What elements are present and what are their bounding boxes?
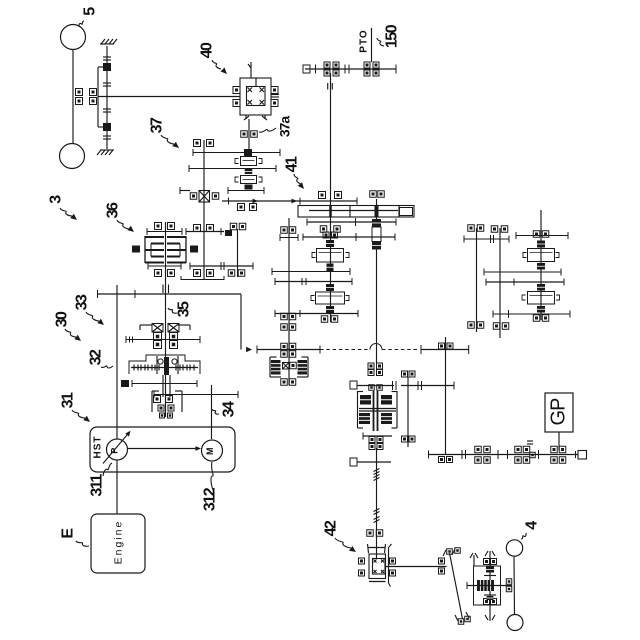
- HST housing: [90, 427, 235, 472]
- sun shaft 32: [163, 357, 170, 397]
- HST pump P: [103, 431, 131, 464]
- shaft 35: [165, 222, 167, 417]
- brake 34 bearings: [154, 396, 175, 419]
- planetary 33 gears: [152, 324, 179, 349]
- output line bearings b: [475, 446, 491, 463]
- pto clutch input cap: [350, 381, 396, 390]
- shaft 3 mid bearings: [281, 313, 296, 320]
- svg-text:30: 30: [54, 311, 71, 327]
- output line ticks: [462, 450, 466, 459]
- shaft 3 bearings row2: [281, 324, 296, 331]
- label 4: [521, 521, 541, 539]
- right shaft A bearings: [468, 225, 484, 329]
- shaft 41a top bearings: [319, 192, 342, 199]
- differential hubs: [103, 63, 111, 131]
- pto shaft top bearings: [370, 191, 385, 198]
- pto counter bearings top: [533, 231, 549, 238]
- svg-text:41: 41: [284, 156, 301, 172]
- svg-text:HST: HST: [93, 436, 104, 459]
- right shaft B bearings: [491, 226, 509, 330]
- bevel box 40 bearings: [233, 87, 279, 107]
- PTO label: [359, 29, 370, 52]
- rear axle shaft: [97, 39, 117, 155]
- label 32: [88, 349, 114, 368]
- speed bar 41: [298, 206, 414, 218]
- right mesh line 282: [486, 279, 564, 286]
- shaft 37a bearings: [241, 131, 258, 138]
- right shaft A: [476, 228, 478, 332]
- clutch 36 side hubs: [132, 246, 198, 253]
- synchro 37 gears: [235, 157, 262, 190]
- shaft 3 vertical: [288, 218, 290, 385]
- engine label: [113, 520, 125, 565]
- shaft 35 spline: [163, 285, 169, 294]
- svg-text:5: 5: [82, 7, 99, 16]
- gear mesh line 37 middle: [189, 165, 276, 172]
- rear axle line: [72, 50, 74, 144]
- svg-text:M: M: [205, 448, 215, 455]
- pto lower cap gear: [350, 458, 391, 466]
- bevel 42 flare: [368, 544, 386, 553]
- output line bearings e: [551, 446, 566, 463]
- steering shaft diagonal: [443, 548, 470, 625]
- pto clutch housing: [358, 391, 398, 431]
- label 30: [54, 311, 82, 341]
- shaft 41a bottom bearings: [321, 316, 338, 323]
- pto counter stack: [523, 241, 559, 270]
- clutch 36 comb: [145, 236, 186, 263]
- mesh line 313: [275, 310, 358, 317]
- front axle gear frame: [470, 553, 501, 605]
- svg-text:312: 312: [202, 487, 219, 511]
- svg-text:31: 31: [60, 392, 77, 408]
- shaft 37a: [248, 119, 250, 152]
- gear line right of pto clutch: [401, 381, 454, 390]
- svg-text:PTO: PTO: [359, 29, 370, 52]
- svg-text:40: 40: [199, 42, 216, 58]
- PTO line end cap: [303, 65, 316, 74]
- gear line 41a: [303, 233, 395, 241]
- travel line: [257, 344, 469, 355]
- counter shaft 37: [203, 140, 205, 280]
- shaft 3 top bearings: [281, 227, 296, 234]
- svg-text:35: 35: [176, 301, 193, 317]
- gear line 36 bottom: [148, 262, 253, 270]
- fr clutch bearings top: [281, 343, 296, 357]
- front drive line: [386, 566, 447, 568]
- label 42: [323, 520, 357, 552]
- svg-text:37: 37: [149, 117, 166, 133]
- gear line 37 lower: [180, 187, 264, 194]
- right mesh line 314: [493, 310, 570, 318]
- pto counter shaft: [540, 210, 542, 320]
- label 37a: [259, 116, 293, 138]
- brake hub: [121, 380, 129, 387]
- svg-text:311: 311: [89, 474, 106, 497]
- gear line 32: [132, 380, 197, 387]
- front axle bearings: [484, 559, 497, 605]
- label 37: [149, 117, 180, 148]
- pto counter line top: [516, 232, 568, 239]
- output end cap: [576, 451, 587, 460]
- engine box: [91, 514, 145, 573]
- gear line 36 top: [147, 228, 224, 235]
- brake 34 frame: [152, 391, 182, 412]
- right shaft down: [445, 337, 447, 455]
- shaft 34: [211, 385, 213, 439]
- label 5: [79, 7, 99, 27]
- shaft 41a bearings row2: [320, 226, 340, 233]
- fr clutch bearings bottom: [281, 379, 296, 386]
- svg-text:42: 42: [323, 520, 340, 536]
- front lower gears: [484, 595, 496, 600]
- gear line under pto clutch: [363, 433, 392, 440]
- svg-text:4: 4: [524, 521, 541, 530]
- mesh line 271: [272, 268, 350, 275]
- PTO top bearings right: [364, 62, 379, 76]
- power line 37 to 41: [222, 198, 357, 205]
- right shaft B: [499, 228, 501, 338]
- svg-text:150: 150: [384, 24, 401, 48]
- wheel 5 upper: [61, 25, 86, 50]
- pto lower shaft: [374, 448, 380, 558]
- label 35: [168, 301, 193, 317]
- GP box: [545, 393, 573, 432]
- right mesh line 272: [484, 269, 561, 276]
- bevel 42 bearings: [359, 558, 396, 576]
- pto clutch right bearings: [402, 371, 416, 377]
- PTO line top: [305, 65, 396, 74]
- gear line shaft3 top: [280, 234, 298, 241]
- pto clutch housing right wall: [407, 377, 409, 447]
- svg-text:3: 3: [48, 195, 65, 204]
- power collect line: [98, 290, 242, 350]
- svg-text:34: 34: [221, 401, 238, 417]
- label E: [60, 528, 90, 547]
- GP label: [548, 398, 570, 426]
- gear line under bar: [307, 218, 396, 226]
- PTO top bearings left: [324, 62, 339, 76]
- label 34: [212, 401, 238, 417]
- shaft 237 top: [225, 223, 246, 277]
- pto lower bearings: [367, 530, 383, 537]
- right gear line top: [464, 235, 509, 243]
- HST label: [93, 436, 104, 459]
- shaft 41a bearings row3: [323, 232, 338, 238]
- pto clutch top bearings: [368, 363, 383, 376]
- shaft 37 mid bearings: [194, 225, 214, 232]
- front drive bearings: [439, 558, 445, 574]
- shift link 36: [181, 276, 224, 280]
- gear stack 41a lower: [311, 284, 349, 313]
- clutch 36 top bearings: [155, 223, 175, 230]
- label 36: [105, 202, 135, 232]
- svg-text:37a: 37a: [277, 116, 293, 138]
- pto clutch bottom bearings: [369, 436, 415, 450]
- gear mesh line 37 upper: [193, 149, 280, 156]
- svg-text:33: 33: [74, 294, 91, 310]
- PTO stub shaft: [371, 28, 373, 62]
- gp output line: [428, 451, 578, 459]
- label 41: [284, 156, 305, 189]
- svg-text:E: E: [60, 528, 77, 539]
- clutch 36 bottom bearings: [155, 270, 214, 277]
- differential bearings: [76, 89, 97, 105]
- input shaft from engine: [116, 285, 118, 439]
- label 312: [202, 462, 219, 511]
- label 311: [89, 463, 113, 497]
- mesh line 281: [275, 278, 352, 285]
- output line bearings a: [439, 457, 453, 463]
- engine shaft: [116, 461, 118, 515]
- label 150: [377, 24, 401, 48]
- front axle shaft: [485, 551, 495, 621]
- svg-text:36: 36: [105, 202, 122, 218]
- front wheel axle: [506, 556, 514, 615]
- bevel gear box 40: [240, 62, 271, 120]
- label 33: [74, 294, 105, 325]
- front final drive: [467, 580, 512, 591]
- front axle spline: [484, 567, 496, 576]
- gear line 33: [126, 336, 200, 343]
- pto counter stack lower: [522, 284, 560, 313]
- GP link line: [558, 432, 560, 450]
- gear stack 41a: [312, 240, 349, 271]
- shaft 37 lower bearings: [238, 204, 257, 211]
- wheel 5 lower: [60, 144, 85, 169]
- svg-text:32: 32: [88, 349, 105, 365]
- svg-text:Engine: Engine: [113, 520, 125, 565]
- label 31: [60, 392, 91, 422]
- idler gear 37: [190, 191, 219, 203]
- right shaft bearings: [439, 343, 454, 349]
- pto shaft vertical: [372, 199, 381, 363]
- shaft 37 top bearings: [194, 140, 214, 147]
- gear line 34: [154, 391, 238, 398]
- svg-text:P: P: [110, 448, 120, 454]
- svg-text:GP: GP: [548, 398, 570, 426]
- differential cage: [98, 67, 103, 127]
- PTO top ticks: [345, 65, 349, 74]
- pto counter bearings bottom: [533, 315, 549, 322]
- front wheel upper: [506, 540, 522, 556]
- shaft 237 bottom bearings: [228, 270, 245, 277]
- shaft 41a spline: [328, 83, 333, 90]
- planetary 33 stub lines: [140, 325, 190, 330]
- main shaft 41a: [330, 73, 332, 322]
- power line arrow to clutch: [246, 346, 257, 354]
- drive line to bevel box: [98, 96, 240, 98]
- label 3: [48, 195, 78, 220]
- carrier 32: [129, 355, 200, 374]
- label 40: [199, 42, 228, 74]
- bevel gear box 42: [369, 544, 392, 587]
- fr clutch: [270, 357, 308, 377]
- output line tick c: [498, 450, 508, 459]
- HST motor M: [202, 440, 223, 461]
- HST link arrow: [128, 446, 201, 451]
- output line bearings d: [515, 441, 539, 463]
- front wheel lower: [507, 615, 523, 631]
